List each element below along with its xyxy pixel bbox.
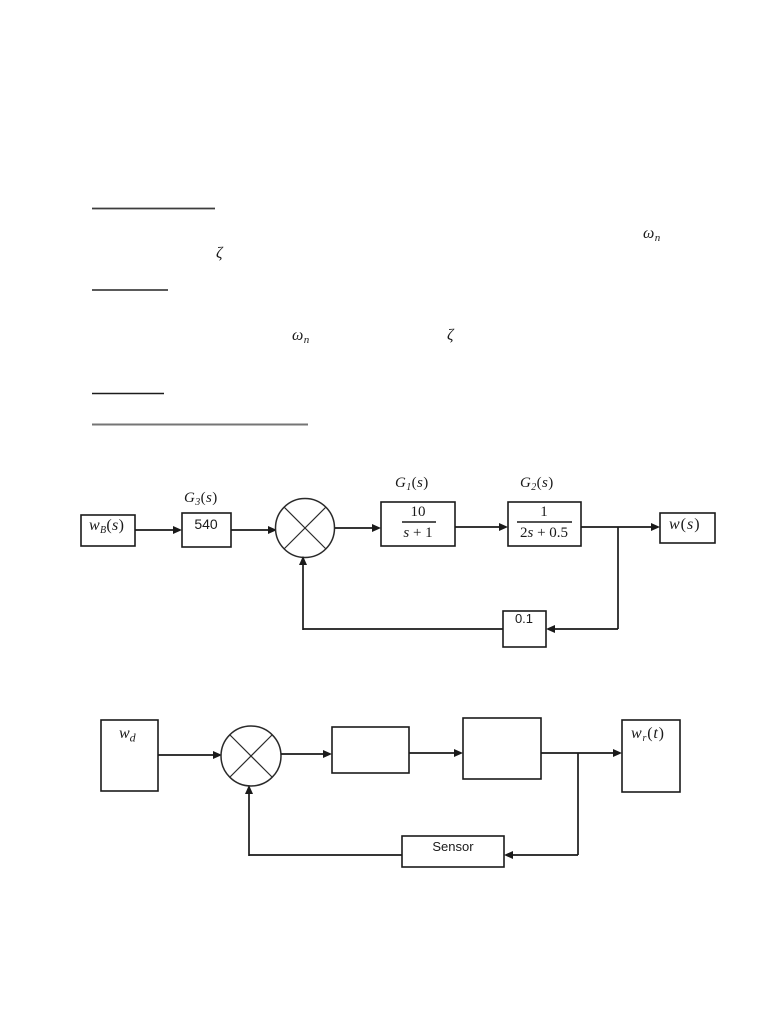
wire summing junction 2 to controller block bbox=[281, 753, 325, 755]
svg-text:wr(t): wr(t) bbox=[631, 725, 665, 744]
plant block (empty) bbox=[463, 718, 541, 779]
sensor block bbox=[402, 836, 504, 867]
arrowhead into 0.1 block bbox=[546, 625, 555, 633]
block output w(s) bbox=[660, 513, 715, 543]
wire G1 to G2 bbox=[455, 526, 501, 528]
wire w_d to summing junction 2 bbox=[158, 754, 214, 756]
feedback block 0.1 bbox=[503, 611, 546, 647]
svg-text:540: 540 bbox=[194, 516, 218, 532]
wire controller to plant block bbox=[409, 752, 456, 754]
arrowhead into summing junction 2 bbox=[213, 751, 222, 759]
arrowhead into summing junction 1 bbox=[268, 526, 277, 534]
arrowhead into plant block bbox=[454, 749, 463, 757]
arrowhead into G1 bbox=[372, 524, 381, 532]
svg-text:Sensor: Sensor bbox=[432, 839, 474, 854]
branch node wire down from output line bbox=[617, 527, 619, 629]
arrowhead up into summing junction 2 bbox=[245, 785, 253, 794]
arrowhead into 540 bbox=[173, 526, 182, 534]
svg-text:wB(s): wB(s) bbox=[89, 517, 124, 536]
summing junction 2 bbox=[221, 726, 281, 786]
svg-text:s + 1: s + 1 bbox=[403, 525, 432, 541]
block input w_B(s) bbox=[81, 515, 135, 546]
svg-text:ζ: ζ bbox=[216, 245, 224, 262]
svg-text:G2(s): G2(s) bbox=[520, 475, 554, 493]
svg-text:2s + 0.5: 2s + 0.5 bbox=[520, 525, 568, 541]
block G1 = 10/(s+1) bbox=[381, 502, 455, 546]
controller block (empty) bbox=[332, 727, 409, 773]
arrowhead into sensor block bbox=[504, 851, 513, 859]
svg-text:10: 10 bbox=[411, 504, 426, 520]
heading underline 3 bbox=[92, 393, 164, 395]
summing junction 1 bbox=[276, 499, 335, 558]
heading underline 4 bbox=[92, 424, 308, 426]
heading underline 2 bbox=[92, 289, 168, 291]
svg-text:ωn: ωn bbox=[292, 327, 310, 346]
arrowhead into w_r(t) bbox=[613, 749, 622, 757]
wire G2 to output w(s) bbox=[581, 526, 653, 528]
feedback wire branch to 0.1 bbox=[553, 628, 618, 630]
block output w_r(t) bbox=[622, 720, 680, 792]
svg-text:1: 1 bbox=[540, 504, 548, 520]
svg-text:ωn: ωn bbox=[643, 225, 661, 244]
heading underline 1 bbox=[92, 208, 215, 210]
arrowhead into w(s) bbox=[651, 523, 660, 531]
feedback wire sensor to below summing junction 2 bbox=[249, 854, 402, 856]
arrowhead up into summing junction 1 bbox=[299, 556, 307, 565]
branch node wire down from output line 2 bbox=[577, 753, 579, 855]
svg-text:w(s): w(s) bbox=[669, 516, 701, 533]
wire summing junction to G1 bbox=[335, 527, 374, 529]
svg-text:0.1: 0.1 bbox=[515, 611, 533, 626]
block input w_d bbox=[101, 720, 158, 791]
arrowhead into controller block bbox=[323, 750, 332, 758]
svg-text:G3(s): G3(s) bbox=[184, 490, 218, 508]
svg-text:G1(s): G1(s) bbox=[395, 475, 429, 493]
feedback wire branch to sensor bbox=[511, 854, 578, 856]
wire plant to output w_r(t) bbox=[541, 752, 615, 754]
arrowhead into G2 bbox=[499, 523, 508, 531]
feedback wire 0.1 to below summing junction bbox=[303, 628, 503, 630]
block G2 = 1/(2s+0.5) bbox=[508, 502, 581, 546]
svg-text:ζ: ζ bbox=[447, 327, 455, 344]
feedback wire up to summing junction 2 bbox=[248, 792, 250, 856]
gain block 540 bbox=[182, 513, 231, 547]
feedback wire up to summing junction 1 bbox=[302, 563, 304, 630]
wire 540 to summing junction bbox=[231, 529, 269, 531]
wire w_B to gain 540 bbox=[135, 529, 175, 531]
